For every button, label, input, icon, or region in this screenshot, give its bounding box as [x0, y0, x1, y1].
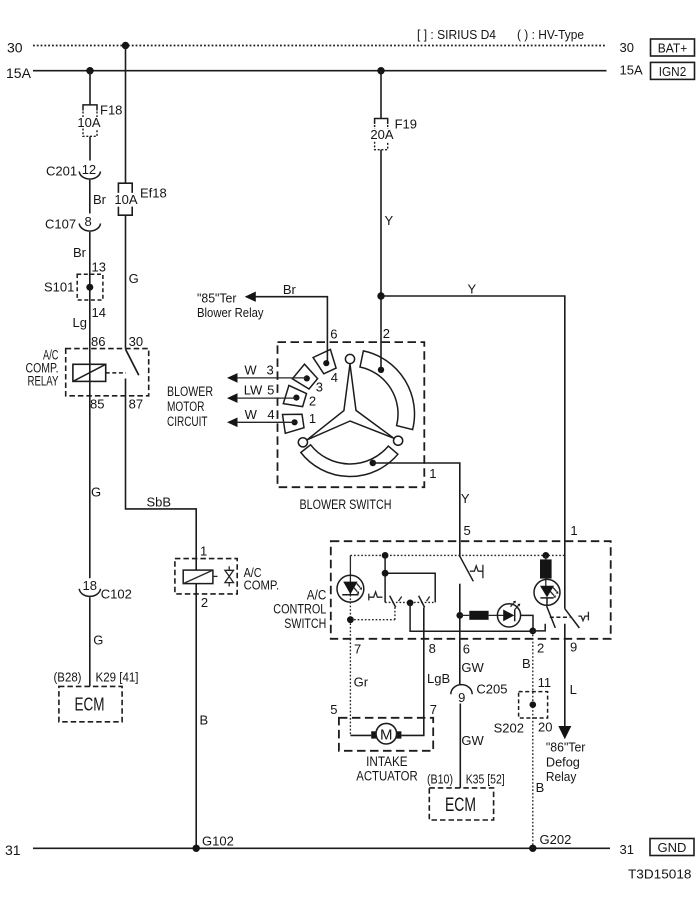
svg-text:C205: C205: [476, 682, 507, 697]
svg-text:RELAY: RELAY: [28, 374, 59, 389]
svg-text:W: W: [244, 363, 257, 378]
svg-text:Blower Relay: Blower Relay: [197, 305, 264, 320]
svg-text:14: 14: [92, 305, 106, 320]
svg-text:B: B: [200, 713, 209, 728]
svg-text:1: 1: [429, 466, 436, 481]
svg-text:CONTROL: CONTROL: [273, 602, 326, 617]
svg-text:(B10): (B10): [427, 772, 453, 787]
svg-text:ECM: ECM: [75, 695, 105, 715]
svg-text:IGN2: IGN2: [659, 64, 687, 79]
svg-text:K29 [41]: K29 [41]: [96, 670, 139, 685]
svg-text:Y: Y: [468, 282, 477, 297]
svg-text:SbB: SbB: [147, 495, 172, 510]
svg-text:85: 85: [90, 397, 104, 412]
svg-text:31: 31: [620, 842, 634, 857]
svg-text:30: 30: [129, 334, 143, 349]
svg-text:1: 1: [570, 523, 577, 538]
svg-text:T3D15018: T3D15018: [628, 867, 692, 882]
svg-text:12: 12: [82, 162, 96, 177]
svg-text:87: 87: [129, 397, 143, 412]
svg-text:30: 30: [620, 40, 634, 55]
svg-text:F18: F18: [100, 103, 122, 118]
svg-text:2: 2: [309, 394, 316, 409]
svg-text:K35 [52]: K35 [52]: [466, 772, 505, 787]
svg-text:11: 11: [538, 675, 552, 690]
svg-text:Ef18: Ef18: [140, 186, 167, 201]
svg-text:1: 1: [200, 544, 207, 559]
svg-text:1: 1: [309, 411, 316, 426]
svg-text:C201: C201: [46, 164, 77, 179]
svg-text:"85"Ter: "85"Ter: [197, 291, 237, 306]
svg-text:15A: 15A: [620, 63, 643, 78]
svg-text:B: B: [522, 656, 531, 671]
svg-text:GW: GW: [461, 733, 484, 748]
svg-text:20: 20: [538, 720, 552, 735]
svg-text:COMP.: COMP.: [244, 578, 280, 593]
svg-text:9: 9: [458, 690, 465, 705]
svg-text:BLOWER SWITCH: BLOWER SWITCH: [300, 497, 392, 512]
svg-text:18: 18: [83, 578, 97, 593]
svg-text:( ) : HV-Type: ( ) : HV-Type: [517, 27, 584, 42]
svg-text:30: 30: [7, 40, 23, 56]
svg-text:C102: C102: [101, 587, 132, 602]
svg-text:10A: 10A: [114, 192, 137, 207]
svg-text:3: 3: [267, 363, 274, 378]
svg-text:CIRCUIT: CIRCUIT: [167, 414, 208, 429]
svg-text:Lg: Lg: [73, 315, 87, 330]
svg-text:W: W: [245, 407, 258, 422]
svg-text:Y: Y: [461, 491, 470, 506]
svg-text:G102: G102: [202, 834, 234, 849]
svg-text:LW: LW: [244, 383, 263, 398]
svg-text:BLOWER: BLOWER: [167, 384, 213, 399]
svg-text:3: 3: [316, 380, 323, 395]
svg-text:5: 5: [330, 702, 337, 717]
svg-text:G202: G202: [540, 832, 572, 847]
svg-text:20A: 20A: [370, 127, 393, 142]
svg-text:LgB: LgB: [427, 671, 450, 686]
svg-text:ECM: ECM: [445, 795, 476, 816]
svg-text:SWITCH: SWITCH: [284, 616, 326, 631]
svg-text:8: 8: [85, 214, 92, 229]
svg-text:2: 2: [383, 326, 390, 341]
svg-text:7: 7: [430, 702, 437, 717]
svg-text:S202: S202: [494, 721, 524, 736]
svg-text:ACTUATOR: ACTUATOR: [356, 769, 418, 784]
svg-text:9: 9: [570, 640, 577, 655]
svg-text:Br: Br: [93, 192, 107, 207]
svg-text:"86"Ter: "86"Ter: [546, 740, 586, 755]
svg-text:15A: 15A: [6, 65, 32, 81]
svg-text:7: 7: [354, 642, 361, 657]
svg-text:G: G: [93, 633, 103, 648]
svg-text:5: 5: [267, 383, 274, 398]
svg-text:B: B: [536, 780, 545, 795]
svg-text:C107: C107: [45, 217, 76, 232]
svg-text:G: G: [129, 271, 139, 286]
svg-text:Y: Y: [385, 213, 394, 228]
svg-text:31: 31: [5, 842, 21, 858]
svg-text:GND: GND: [658, 840, 687, 855]
svg-text:Gr: Gr: [354, 675, 369, 690]
svg-text:4: 4: [331, 370, 338, 385]
svg-text:4: 4: [267, 407, 274, 422]
svg-text:2: 2: [201, 595, 208, 610]
svg-text:MOTOR: MOTOR: [167, 399, 205, 414]
svg-text:6: 6: [463, 642, 470, 657]
svg-text:2: 2: [537, 641, 544, 656]
svg-text:(B28): (B28): [54, 670, 82, 685]
svg-text:8: 8: [429, 641, 436, 656]
svg-text:[ ] : SIRIUS D4: [ ] : SIRIUS D4: [417, 27, 496, 42]
svg-text:Br: Br: [283, 282, 297, 297]
svg-text:6: 6: [330, 327, 337, 342]
svg-text:GW: GW: [461, 660, 484, 675]
svg-text:A/C: A/C: [307, 588, 327, 603]
svg-text:INTAKE: INTAKE: [366, 754, 408, 769]
svg-text:F19: F19: [395, 117, 417, 132]
svg-text:10A: 10A: [77, 115, 100, 130]
svg-text:Defog: Defog: [546, 755, 580, 770]
svg-text:Br: Br: [73, 245, 87, 260]
svg-text:Relay: Relay: [546, 769, 577, 784]
svg-text:86: 86: [91, 334, 105, 349]
svg-text:G: G: [91, 485, 101, 500]
svg-text:13: 13: [92, 260, 106, 275]
svg-text:5: 5: [464, 523, 471, 538]
svg-text:M: M: [380, 727, 393, 744]
svg-text:L: L: [570, 682, 577, 697]
svg-text:BAT+: BAT+: [658, 41, 688, 56]
svg-text:S101: S101: [44, 280, 74, 295]
